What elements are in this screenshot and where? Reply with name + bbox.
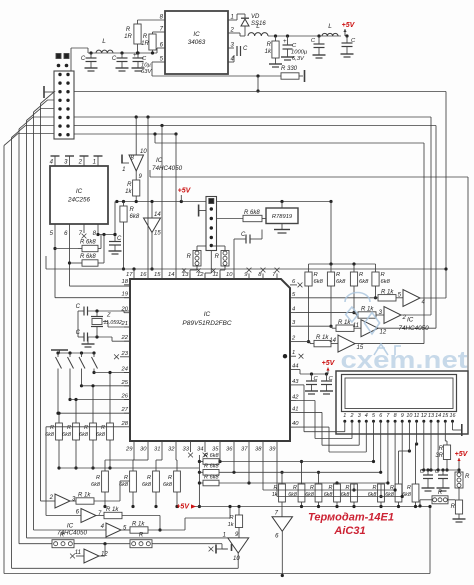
svg-text:2: 2 bbox=[350, 413, 354, 419]
LCD pin 6 bbox=[379, 413, 382, 425]
svg-text:6k8: 6k8 bbox=[62, 432, 72, 438]
svg-text:1: 1 bbox=[93, 160, 96, 166]
svg-text:+: + bbox=[283, 39, 287, 45]
no-connect mark near pin13 bbox=[182, 268, 186, 272]
svg-text:41: 41 bbox=[292, 406, 298, 412]
svg-text:4: 4 bbox=[292, 307, 295, 313]
node +5V top bbox=[342, 22, 356, 36]
ground bottom right bbox=[453, 519, 466, 522]
wire R330 to outer loop bbox=[256, 76, 259, 93]
capacitor C crystal (b) bbox=[76, 330, 88, 342]
svg-text:R: R bbox=[439, 446, 444, 452]
svg-text:R: R bbox=[465, 474, 470, 480]
resistor R 1k bottom row 1 bbox=[272, 471, 286, 517]
label IC 74HC4050 upper bbox=[152, 157, 183, 172]
svg-text:1000µ: 1000µ bbox=[291, 50, 308, 56]
capacitor C right (a) bbox=[420, 469, 435, 491]
wire pin27 line bbox=[58, 412, 130, 414]
wire MCU pin35 down bbox=[219, 446, 221, 462]
wire X1 to power rail bbox=[71, 48, 88, 71]
svg-text:1: 1 bbox=[292, 350, 295, 356]
svg-text:33: 33 bbox=[183, 447, 190, 453]
resistor R 1k op-amp DA1 bbox=[228, 505, 243, 538]
24C256 pin 8 bottom bbox=[93, 224, 98, 237]
wire LCD pin14 drop bbox=[437, 425, 440, 472]
resistor R bottom right vertical bbox=[451, 500, 463, 519]
label IC 74HC4050 right bbox=[399, 317, 430, 333]
U3 pin 36 bottom bbox=[226, 441, 234, 453]
svg-text:29: 29 bbox=[125, 447, 133, 453]
resistor R 1R (b) bbox=[141, 32, 156, 53]
wire Vin rail bbox=[88, 51, 157, 54]
svg-text:C: C bbox=[112, 56, 117, 62]
svg-text:10µ: 10µ bbox=[141, 63, 151, 69]
svg-text:3: 3 bbox=[358, 413, 361, 419]
U3 pin 13 bbox=[182, 272, 190, 279]
resistor R 1k output bbox=[265, 36, 282, 67]
buffer U2e (pins 11,12) bbox=[353, 320, 436, 337]
svg-text:6k8: 6k8 bbox=[45, 432, 55, 438]
U1 pin 7 bbox=[153, 27, 166, 33]
U3 pin 4 right bbox=[290, 307, 296, 313]
resistor R 6k8 port pull 2 bbox=[119, 446, 148, 508]
svg-text:R: R bbox=[147, 475, 151, 481]
svg-text:L: L bbox=[256, 23, 260, 30]
wire MCU pin4 to buffer bbox=[296, 313, 358, 315]
resistor R 1k buffer a bbox=[378, 290, 403, 302]
svg-text:16: 16 bbox=[140, 272, 147, 278]
wire MCU pin39 down bbox=[276, 446, 278, 497]
diode VD SS16 bbox=[241, 14, 266, 36]
U3 pin 32 bottom bbox=[168, 441, 176, 453]
capacitor C 1000u 6.3V bbox=[281, 36, 308, 62]
svg-text:R 6k8: R 6k8 bbox=[204, 464, 220, 470]
svg-text:43: 43 bbox=[292, 379, 299, 385]
svg-text:R: R bbox=[407, 485, 411, 491]
U3 pin 7 bbox=[272, 272, 277, 279]
svg-text:44: 44 bbox=[292, 364, 298, 370]
svg-text:4: 4 bbox=[365, 413, 368, 419]
svg-text:28: 28 bbox=[121, 421, 129, 427]
buffer U2b 74HC4050 (pins 14,15) bbox=[144, 200, 162, 271]
U3 pin 33 bottom bbox=[183, 441, 191, 453]
resistor R 6k8 bottom row 5 bbox=[341, 484, 358, 508]
wire LCD pin16 ground bbox=[453, 424, 462, 436]
svg-text:C: C bbox=[81, 56, 86, 62]
svg-text:P89V51RD2FBC: P89V51RD2FBC bbox=[182, 320, 231, 327]
wire MCU pin38 down bbox=[262, 446, 264, 490]
connector X1 pad squares bbox=[56, 54, 69, 59]
no-connect U3 pin33 bbox=[188, 446, 193, 457]
svg-text:14: 14 bbox=[168, 272, 174, 278]
svg-text:12: 12 bbox=[197, 272, 204, 278]
no-connect U3 pin23 bbox=[114, 354, 124, 359]
no-connect U3 pin9 bbox=[247, 268, 252, 273]
svg-text:6k8: 6k8 bbox=[142, 482, 152, 488]
wire pin24 line bbox=[94, 372, 130, 374]
wire MCU pin40 to LCD pin4 bbox=[296, 425, 366, 452]
op-amp DA2 (pins 7,6) inverter bbox=[272, 511, 293, 578]
svg-text:6k8: 6k8 bbox=[385, 492, 394, 498]
svg-text:39: 39 bbox=[269, 447, 276, 453]
resistor R 6k8 vertical mid bbox=[120, 202, 140, 271]
svg-text:18: 18 bbox=[122, 279, 129, 285]
svg-text:R: R bbox=[50, 425, 54, 431]
svg-text:R 1k: R 1k bbox=[381, 290, 394, 296]
no-connect mark 24C256 pin 7 bbox=[82, 229, 87, 238]
LCD screen bbox=[342, 375, 457, 412]
U3 pin16 wire up bbox=[147, 117, 149, 274]
U3 pin 14 bbox=[168, 272, 176, 279]
svg-text:R: R bbox=[267, 42, 272, 48]
no-connect U3 pin8 bbox=[261, 268, 266, 273]
24C256 pin 5 bottom bbox=[50, 224, 55, 237]
U3 pin 28 bbox=[121, 421, 130, 427]
svg-text:6k8: 6k8 bbox=[324, 492, 333, 498]
node +5V LCD bbox=[322, 360, 336, 374]
svg-text:+: + bbox=[133, 53, 137, 59]
thermistor R right vertical bbox=[455, 470, 470, 500]
U3 pin 25 bbox=[121, 380, 130, 386]
U3 pin 31 bottom bbox=[154, 441, 162, 453]
wire switch-pull common rail bbox=[59, 467, 199, 469]
wire crystal left rail bbox=[77, 311, 79, 337]
24C256 pin 6 bottom bbox=[64, 224, 69, 237]
svg-text:IC: IC bbox=[193, 31, 200, 38]
svg-text:R: R bbox=[101, 425, 105, 431]
resistor R 6k8 series (a) bbox=[199, 453, 219, 465]
svg-text:6k8: 6k8 bbox=[96, 432, 106, 438]
svg-text:C: C bbox=[241, 232, 246, 238]
U3 pin 37 bottom bbox=[241, 441, 249, 453]
svg-text:1k: 1k bbox=[125, 189, 132, 195]
node +5V mid bbox=[178, 188, 192, 202]
svg-text:6k8: 6k8 bbox=[314, 279, 324, 285]
capacitor C input (b) bbox=[112, 53, 129, 71]
svg-text:14: 14 bbox=[154, 212, 161, 218]
U1 pin 8 bbox=[138, 15, 166, 21]
resistor R 6k8 bottom row 7 bbox=[385, 449, 411, 508]
resistor R 1k buffer d bbox=[314, 335, 338, 347]
wire bus F to gate area bbox=[150, 170, 468, 421]
svg-text:R 6k8: R 6k8 bbox=[244, 210, 260, 216]
op-amp DA1 (pins 1,9,10) bbox=[223, 532, 249, 568]
capacitor C 10u 63V polarized bbox=[132, 53, 153, 75]
svg-text:24C256: 24C256 bbox=[67, 197, 91, 204]
U3 pin 17 bbox=[126, 272, 134, 279]
no-connect mark near pin11 bbox=[211, 268, 215, 272]
U3 pin 23 bbox=[121, 351, 130, 357]
svg-text:R 6k8: R 6k8 bbox=[80, 240, 96, 246]
svg-text:R: R bbox=[130, 207, 135, 213]
U3 pin 40 right bbox=[290, 421, 299, 427]
switch SB4 bbox=[92, 353, 98, 374]
wire LCD pin5 run bbox=[218, 425, 375, 463]
svg-text:25: 25 bbox=[121, 380, 129, 386]
U3 pin 44 right bbox=[290, 364, 298, 370]
capacitor C filter (a) bbox=[311, 36, 326, 58]
svg-text:6k8: 6k8 bbox=[119, 482, 129, 488]
svg-text:6k8: 6k8 bbox=[288, 492, 297, 498]
U3 pin 30 bottom bbox=[140, 441, 148, 453]
label IC 74HC4050 bottom bbox=[57, 523, 88, 537]
svg-text:1: 1 bbox=[343, 413, 346, 419]
U3 pin 43 right bbox=[290, 379, 299, 385]
svg-text:40: 40 bbox=[292, 421, 299, 427]
svg-text:R: R bbox=[451, 504, 456, 510]
wire MCU pin42 to LCD pin2 bbox=[296, 401, 352, 439]
resistor R 1k out b bbox=[96, 507, 162, 532]
svg-text:11: 11 bbox=[75, 550, 81, 556]
inductor L input filter bbox=[96, 38, 113, 53]
svg-text:13: 13 bbox=[182, 272, 189, 278]
svg-text:10: 10 bbox=[406, 413, 412, 419]
LCD pin 13 bbox=[428, 413, 434, 425]
wire left vertical bus lines bbox=[4, 104, 41, 574]
svg-text:R: R bbox=[143, 34, 148, 40]
svg-text:13: 13 bbox=[428, 413, 434, 419]
svg-text:VD: VD bbox=[251, 14, 260, 20]
resistor R 6k8 pullup right 1 bbox=[305, 264, 324, 343]
U3 pin 24 bbox=[121, 367, 130, 373]
svg-text:AiC31: AiC31 bbox=[333, 525, 365, 537]
svg-text:17: 17 bbox=[126, 272, 133, 278]
wire +5V rail to pullup rail right bbox=[330, 202, 332, 265]
svg-text:L: L bbox=[328, 23, 332, 30]
wire +5V bottom rail bbox=[194, 506, 430, 508]
title Termodat-14E1 bbox=[308, 512, 394, 538]
wire bus C bbox=[74, 124, 436, 328]
switch SB3 bbox=[79, 353, 85, 387]
svg-text:R 330: R 330 bbox=[281, 66, 298, 72]
svg-text:6k8: 6k8 bbox=[336, 279, 346, 285]
resistor R 6k8 bottom row 3 bbox=[305, 471, 322, 508]
wire LCD pin9 run bbox=[277, 425, 404, 498]
svg-text:R 6k8: R 6k8 bbox=[204, 453, 220, 459]
LCD pin 7 bbox=[386, 413, 390, 425]
test point bar after R330 bbox=[299, 70, 305, 82]
U3 pin 35 bottom bbox=[212, 441, 220, 453]
U3 pin 1 right bbox=[290, 350, 296, 356]
svg-text:74HC4050: 74HC4050 bbox=[399, 325, 430, 332]
svg-text:14: 14 bbox=[435, 413, 441, 419]
wire pin28 down to U4b bbox=[46, 427, 124, 516]
LCD pin 9 bbox=[401, 413, 404, 425]
svg-text:14: 14 bbox=[329, 338, 336, 344]
svg-text:42: 42 bbox=[292, 395, 299, 401]
wire MCU pin43 to LCD pin1 bbox=[296, 385, 345, 432]
svg-text:+5V: +5V bbox=[342, 22, 356, 29]
LCD pin 14 bbox=[435, 413, 441, 425]
wire coil a to MCU pin13 bbox=[190, 266, 197, 279]
svg-text:2: 2 bbox=[49, 495, 54, 501]
wire MCU pin3 to buffer bbox=[296, 326, 336, 328]
svg-text:6k8: 6k8 bbox=[381, 279, 391, 285]
resistor R 6k8 switch pull 2 bbox=[62, 398, 79, 470]
U3 pin14 wire up bbox=[175, 134, 177, 274]
wire pin25 line bbox=[82, 385, 131, 387]
svg-text:12: 12 bbox=[380, 330, 387, 336]
resistor R 6k8 I2C pullup (b) bbox=[70, 235, 105, 267]
wire bottom line B outer bbox=[4, 505, 432, 574]
svg-text:6k8: 6k8 bbox=[305, 492, 314, 498]
svg-text:C: C bbox=[117, 236, 122, 242]
U3 pin 11 bbox=[212, 272, 220, 279]
wire switch common bbox=[56, 351, 95, 354]
wire MCU pin41 to LCD pin3 bbox=[296, 412, 359, 445]
svg-text:15: 15 bbox=[442, 413, 449, 419]
svg-text:R 1k: R 1k bbox=[132, 522, 145, 528]
wire bus B bbox=[74, 115, 431, 315]
wire 24C256 pin6 to MCU pin18 bbox=[68, 229, 130, 286]
svg-text:30: 30 bbox=[140, 447, 147, 453]
wire LCD pin13 drop bbox=[429, 425, 432, 472]
svg-text:R 1k: R 1k bbox=[106, 507, 119, 513]
wire coil b to MCU pin11 bbox=[220, 266, 225, 279]
LCD pin 10 bbox=[406, 413, 412, 425]
svg-text:11: 11 bbox=[414, 413, 420, 419]
LCD pin 1 bbox=[343, 413, 346, 425]
svg-text:R: R bbox=[168, 475, 172, 481]
capacitor C filter (b) bbox=[341, 36, 357, 57]
wire LCD pin11 drop bbox=[416, 425, 418, 444]
resistor R 6k8 pullup right 3 bbox=[350, 264, 369, 314]
wire bus A (connector to right loop) bbox=[74, 92, 446, 299]
svg-text:IC: IC bbox=[76, 188, 83, 195]
voltage reference R78919 bbox=[262, 208, 298, 224]
no-connect U3 pin7 bbox=[275, 268, 280, 273]
switch SB2 bbox=[68, 353, 74, 401]
U1 pin 4 bbox=[228, 55, 235, 63]
resistor R 6k8 pullup right 2 bbox=[327, 264, 346, 328]
U3 pin 19 bbox=[122, 292, 130, 298]
resistor R 6k8 series (b) bbox=[199, 464, 219, 476]
LCD pin 16 bbox=[450, 413, 456, 425]
wire DA1 lower input bbox=[209, 545, 228, 554]
U3 pin 8 bbox=[258, 272, 263, 279]
U1 pin 1 bbox=[228, 14, 245, 21]
svg-text:Z: Z bbox=[106, 313, 111, 319]
IC 24C256 body bbox=[50, 166, 108, 224]
svg-text:R: R bbox=[126, 27, 131, 33]
svg-text:15: 15 bbox=[154, 231, 161, 237]
wire left bus fan-out bbox=[4, 92, 55, 146]
buffer U2d (pins 3,2) bbox=[379, 307, 431, 324]
svg-text:C: C bbox=[76, 304, 81, 310]
svg-text:6k8: 6k8 bbox=[368, 492, 377, 498]
svg-text:IC: IC bbox=[67, 523, 74, 530]
svg-text:R: R bbox=[215, 254, 220, 260]
resistor R 6k8 port pull 4 bbox=[163, 446, 180, 508]
input bar U2a pin8 bbox=[122, 155, 129, 164]
buffer U4a (pins 2,3) bbox=[41, 494, 77, 508]
node +5V right bbox=[455, 451, 469, 472]
U3 pin 9 bbox=[244, 272, 249, 279]
switch SB1 bbox=[56, 353, 62, 415]
svg-text:R 1k: R 1k bbox=[78, 493, 91, 499]
U3 pin 18 bbox=[122, 279, 130, 285]
LCD pin 12 bbox=[421, 413, 427, 425]
LCD pin 3 bbox=[358, 413, 361, 425]
wire 24C256 pin8 pullup node bbox=[96, 229, 116, 236]
no-connect U3 pin34 bbox=[203, 446, 208, 457]
buffer U4c (pins 4,5) bbox=[34, 523, 128, 537]
resistor R 6k8 bottom row 6 bbox=[368, 484, 385, 508]
wire LCD pin8 run bbox=[263, 425, 397, 492]
svg-text:27: 27 bbox=[121, 407, 129, 413]
LCD pin 11 bbox=[414, 413, 420, 425]
svg-text:R: R bbox=[67, 425, 71, 431]
capacitor C at MCU pin10 bbox=[234, 230, 262, 280]
svg-text:36: 36 bbox=[226, 447, 233, 453]
svg-text:63V: 63V bbox=[141, 69, 152, 75]
U3 pin 15 bbox=[154, 272, 162, 279]
LCD pin 2 bbox=[350, 413, 354, 425]
svg-text:R 1k: R 1k bbox=[316, 335, 329, 341]
svg-text:+5V: +5V bbox=[322, 360, 336, 367]
wire long rail above MCU bbox=[46, 256, 448, 271]
svg-text:38: 38 bbox=[255, 447, 262, 453]
wire +5V rail mid bbox=[115, 200, 332, 203]
resistor R 1k out c bbox=[121, 505, 232, 533]
wire 24C256 pin5 to MCU pin19 bbox=[53, 229, 130, 298]
svg-text:R: R bbox=[139, 533, 144, 539]
svg-text:34063: 34063 bbox=[188, 39, 206, 46]
U3 pin 10 bbox=[226, 272, 234, 279]
svg-text:31: 31 bbox=[154, 447, 160, 453]
U1 pin 2 bbox=[228, 28, 245, 37]
connector X1 pads row 2 bbox=[57, 64, 69, 68]
wire U1 pin5 feedback bbox=[152, 62, 281, 78]
resistor R 1k below U2a bbox=[125, 171, 140, 202]
U3 pin1 dot and mark bbox=[283, 354, 304, 359]
svg-text:R: R bbox=[127, 182, 132, 188]
wire pin21 to crystal bbox=[103, 322, 130, 328]
IC U3 microcontroller P89V51RD2FBC body bbox=[130, 279, 290, 441]
svg-text:11: 11 bbox=[353, 323, 359, 329]
series resistor R (coil) a bbox=[187, 246, 206, 266]
U3 pin 42 right bbox=[290, 395, 299, 401]
svg-text:11: 11 bbox=[212, 272, 218, 278]
wire LCD pin15 to R3R bbox=[445, 425, 447, 445]
U1 pin 5 bbox=[152, 57, 165, 63]
wire crystal bottom line to pin22 bbox=[78, 335, 130, 341]
wire bus D bbox=[74, 132, 424, 343]
svg-text:6k8: 6k8 bbox=[163, 482, 173, 488]
svg-text:R 6k8: R 6k8 bbox=[80, 254, 96, 260]
U3 pin 5 right bbox=[290, 292, 296, 298]
svg-text:6k8: 6k8 bbox=[79, 432, 89, 438]
U3 pin 6 right bbox=[290, 279, 296, 285]
svg-text:6k8: 6k8 bbox=[341, 492, 350, 498]
no-connect mark near pin12 bbox=[196, 268, 200, 272]
svg-text:R 6k8: R 6k8 bbox=[204, 474, 220, 480]
wire crystal top line to pin20 bbox=[78, 309, 130, 312]
svg-text:2: 2 bbox=[78, 160, 83, 166]
resistor R 6k8 switch pull 4 bbox=[96, 371, 113, 470]
svg-text:R: R bbox=[124, 475, 128, 481]
svg-text:1k: 1k bbox=[265, 49, 272, 55]
24C256 pin 1 top bbox=[93, 156, 103, 166]
buffer U4d (pins 11,12) bbox=[70, 549, 108, 563]
svg-text:1R: 1R bbox=[141, 41, 149, 47]
buffer U2c (pins 5,4) bbox=[398, 290, 446, 307]
wire header to MCU pin12 bbox=[205, 251, 211, 280]
U1 pin 3 bbox=[228, 43, 235, 49]
capacitor C decoupling (b) bbox=[320, 374, 334, 394]
24C256 pin 7 bottom bbox=[79, 224, 84, 237]
wire U4d output bbox=[99, 544, 105, 556]
